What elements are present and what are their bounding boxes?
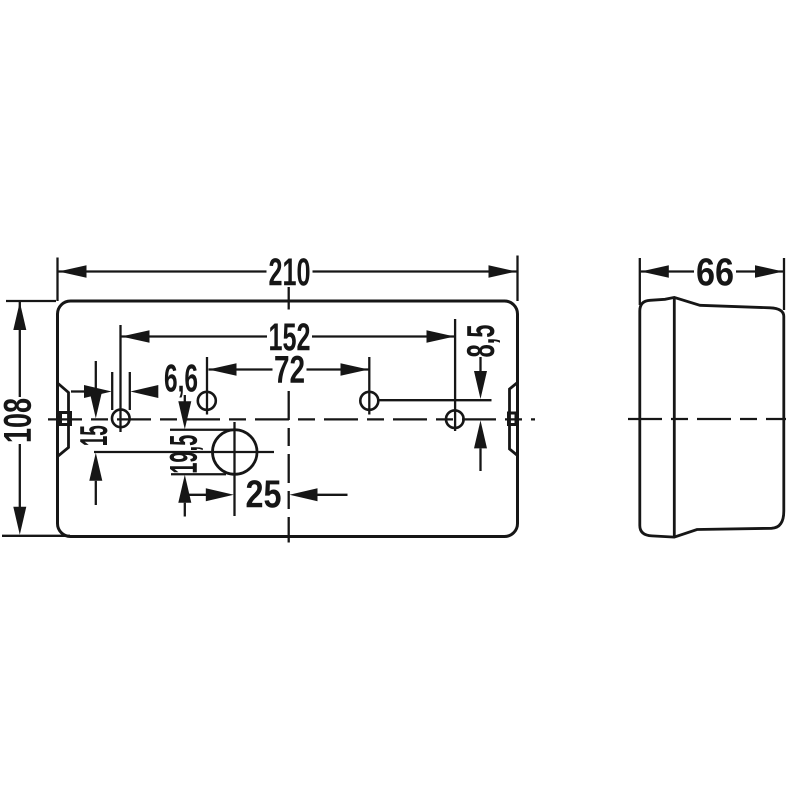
hole left tangent extension line right [129,372,131,410]
vertical centerline front view upper segment [288,287,290,310]
dim 210 left extension [56,258,58,302]
dim 152 line left segment [122,335,268,337]
right mounting tab [510,383,518,456]
left tab slot [61,413,71,425]
hole right [446,410,464,428]
dim 152 arrowhead 2 [427,330,455,343]
dim 6,6 arrowhead 2 [130,385,158,398]
dim 15 arrowhead 1 [89,390,102,418]
dim text 72 [275,356,304,383]
vertical centerline front view lower segment [288,391,290,543]
dim 19,5 top tangent line [170,429,236,431]
dim text 25 [247,480,281,508]
horizontal centerline front view [48,418,535,420]
dim 152 line right segment [312,335,455,337]
dim 108 arrowhead 1 [13,302,26,330]
dim 15 arrowhead 2 [89,453,102,481]
right tab slot [509,413,517,425]
dim 19,5 upper stub [184,395,186,402]
dim 66 arrowhead 1 [641,265,669,278]
dim 66 line left segment [641,270,694,272]
dim 72 arrowhead 2 [341,363,369,376]
front view housing outline [58,301,518,537]
dim 108 line upper segment [19,302,21,397]
dim 66 left extension [639,258,641,305]
dim 210 line left segment [59,270,267,272]
dim text 152 [270,323,309,351]
dim 66 line right segment [736,270,783,272]
hole left tangent extension line left [111,372,113,410]
side view centerline [628,418,786,420]
dim 8,5 extension line [379,399,492,401]
dim 15 lower stub [95,481,97,505]
dim 66 arrowhead 2 [755,265,783,278]
dim text 210 [269,258,309,286]
dim 6,6 arrowhead 1 [84,385,112,398]
dim 72 line left segment [209,368,273,370]
dim 152 arrowhead 1 [122,330,150,343]
big hole horizontal axis line [94,451,274,453]
dim text 15 rotated [80,426,107,445]
left mounting tab [58,383,69,457]
dim 72 line right segment [307,368,369,370]
dim 210 arrowhead 2 [489,265,517,278]
side view lens joint line [673,297,676,537]
dim 25 arrowhead 1 [206,488,234,501]
dim 19,5 lower stub [184,503,186,517]
dim 19,5 arrowhead 2 [178,475,191,503]
dim 66 right extension [783,258,785,310]
big hole ø19.5 [213,430,258,475]
dim 8,5 upper stub [479,357,481,373]
dim 72 arrowhead 1 [209,363,237,376]
hole upper-mid [198,392,216,410]
dim 8,5 arrowhead 1 [474,371,487,399]
dim 210 line right segment [313,270,517,272]
dim 72 right extension (through hole) [368,357,370,415]
dim text 6,6 [165,364,197,397]
dim 108 arrowhead 2 [13,507,26,535]
dim 152 left extension (through left hole) [119,325,121,432]
dim 6,6 left tail line [71,390,85,392]
dim 152 right extension (through right hole) [454,319,456,431]
dim 210 arrowhead 1 [59,265,87,278]
dim text 19,5 rotated [170,435,203,472]
dim text 66 [697,258,733,286]
dim text 8,5 rotated [467,325,500,357]
dim 108 top extension [6,300,56,302]
dim 19,5 bottom tangent line [171,473,226,475]
dim 210 right extension [516,256,518,302]
dim text 108 rotated [4,399,32,442]
dim 25 right tail [318,494,348,496]
big hole vertical axis line [233,422,235,516]
dim 8,5 arrowhead 2 [474,420,487,448]
dim 15 upper stub [95,361,97,391]
dim 25 left tail [186,494,206,496]
dim 108 line lower segment [19,444,21,508]
dim 25 arrowhead 2 [290,488,318,501]
dim 108 bottom extension [2,535,70,537]
dim 72 left extension (through hole) [206,357,208,415]
side view outline [640,297,784,537]
hole left (ø6.6) [112,410,130,428]
dim 19,5 arrowhead 1 [178,401,191,429]
dim 8,5 lower stub [479,448,481,471]
hole upper-right [360,392,378,410]
